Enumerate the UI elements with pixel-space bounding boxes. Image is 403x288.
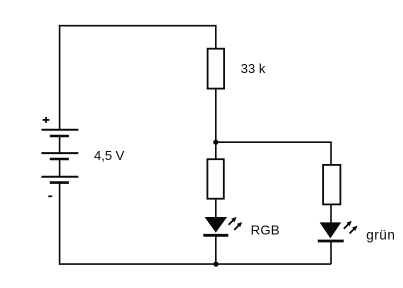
battery BT1 link cell2-cell3 <box>59 159 61 177</box>
LED D1 triangle (anode) <box>205 217 227 233</box>
LED D2 cathode bar <box>318 240 344 243</box>
resistor R2 <box>207 159 223 199</box>
svg-text:4,5 V: 4,5 V <box>94 148 125 163</box>
wire: LED D2 cathode to bottom rail <box>330 241 332 264</box>
battery BT1 cell 3 long plate <box>41 176 78 178</box>
svg-text:grün: grün <box>366 228 395 243</box>
LED D1 emission arrow 2 <box>234 222 242 230</box>
svg-text:RGB: RGB <box>251 223 280 238</box>
resistor R3 <box>323 165 340 205</box>
wire: R3 bottom to LED D2 anode <box>330 204 332 223</box>
LED D2 emission arrow 1 <box>344 221 352 229</box>
wire: branch from node A right and down to resistor R3 <box>216 142 331 165</box>
wire: R1 bottom to node A <box>215 89 217 142</box>
wire: bottom rail <box>60 183 331 265</box>
resistor R1 (33 k) <box>208 49 225 89</box>
battery BT1 cell 2 long plate <box>41 152 78 154</box>
battery BT1 cell 1 long plate (+) <box>41 129 78 131</box>
wire: R2 bottom to LED D1 anode <box>215 198 217 217</box>
wire: LED D1 cathode to bottom node B <box>215 235 217 264</box>
LED D2 emission arrow 2 <box>350 226 358 234</box>
battery BT1 cell 2 short plate <box>50 158 69 161</box>
LED D1 emission arrow 1 <box>229 217 237 225</box>
battery BT1 cell 1 short plate <box>50 135 69 138</box>
LED D1 cathode bar <box>203 234 228 237</box>
battery BT1 link cell1-cell2 <box>59 136 61 153</box>
svg-text:33 k: 33 k <box>241 61 266 76</box>
label: + (battery positive) <box>43 117 50 123</box>
battery BT1 cell 3 short plate (-) <box>50 181 69 184</box>
wire: battery + terminal up and along top rail to resistor R1 <box>60 26 216 130</box>
wire: node A down to resistor R2 <box>215 142 217 159</box>
LED D2 triangle (anode) <box>320 222 342 238</box>
node A (junction dot) <box>213 140 218 145</box>
node B (junction dot on bottom rail) <box>213 262 218 267</box>
label: - (battery negative) <box>48 195 52 197</box>
